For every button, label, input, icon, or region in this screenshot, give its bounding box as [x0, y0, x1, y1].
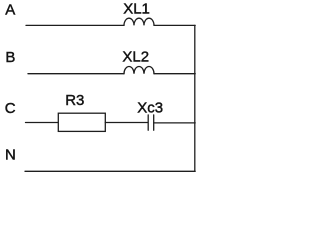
wire phase B right segment	[154, 73, 195, 75]
svg-text:Xc3: Xc3	[137, 100, 163, 117]
wire neutral N	[25, 170, 195, 172]
wire phase A right segment	[154, 24, 195, 26]
wire phase C middle segment	[105, 122, 147, 124]
wire phase A left segment	[26, 24, 124, 26]
wire phase C left segment	[26, 122, 59, 124]
inductor XL2	[124, 67, 154, 74]
wire phase B left segment	[28, 73, 124, 75]
svg-text:XL1: XL1	[123, 0, 150, 17]
svg-text:XL2: XL2	[122, 49, 149, 66]
svg-text:C: C	[5, 100, 16, 117]
svg-text:A: A	[5, 2, 15, 19]
wire right vertical bus	[194, 25, 196, 171]
svg-text:B: B	[5, 49, 15, 66]
svg-text:N: N	[5, 147, 16, 164]
inductor XL1	[124, 18, 154, 25]
resistor R3	[58, 113, 105, 131]
svg-text:R3: R3	[65, 92, 84, 109]
wire phase C right segment	[154, 122, 196, 124]
capacitor Xc3	[148, 115, 154, 130]
